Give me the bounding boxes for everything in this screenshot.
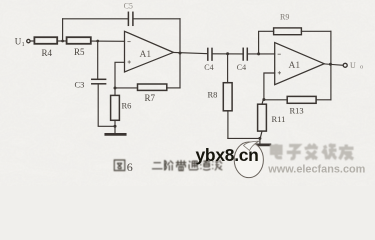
svg-text:6: 6	[127, 160, 133, 174]
svg-text:U: U	[350, 61, 356, 70]
svg-text:o: o	[360, 64, 363, 71]
svg-text:C5: C5	[124, 2, 133, 11]
svg-text:R5: R5	[74, 47, 85, 57]
svg-text:A1: A1	[140, 50, 152, 60]
svg-text:R6: R6	[122, 101, 132, 111]
svg-text:R8: R8	[208, 90, 218, 100]
svg-text:R13: R13	[290, 106, 304, 116]
svg-text:ybx8.cn: ybx8.cn	[196, 145, 259, 165]
svg-text:R7: R7	[145, 93, 156, 103]
svg-text:R4: R4	[42, 48, 53, 58]
svg-text:R9: R9	[280, 13, 289, 22]
svg-text:C3: C3	[75, 79, 85, 89]
svg-text:www.elecfans.com: www.elecfans.com	[267, 164, 365, 176]
svg-text:R11: R11	[272, 114, 286, 124]
svg-text:1: 1	[22, 42, 25, 48]
svg-text:C4: C4	[204, 63, 213, 72]
svg-text:A1: A1	[289, 61, 301, 71]
svg-text:C4: C4	[237, 63, 246, 72]
